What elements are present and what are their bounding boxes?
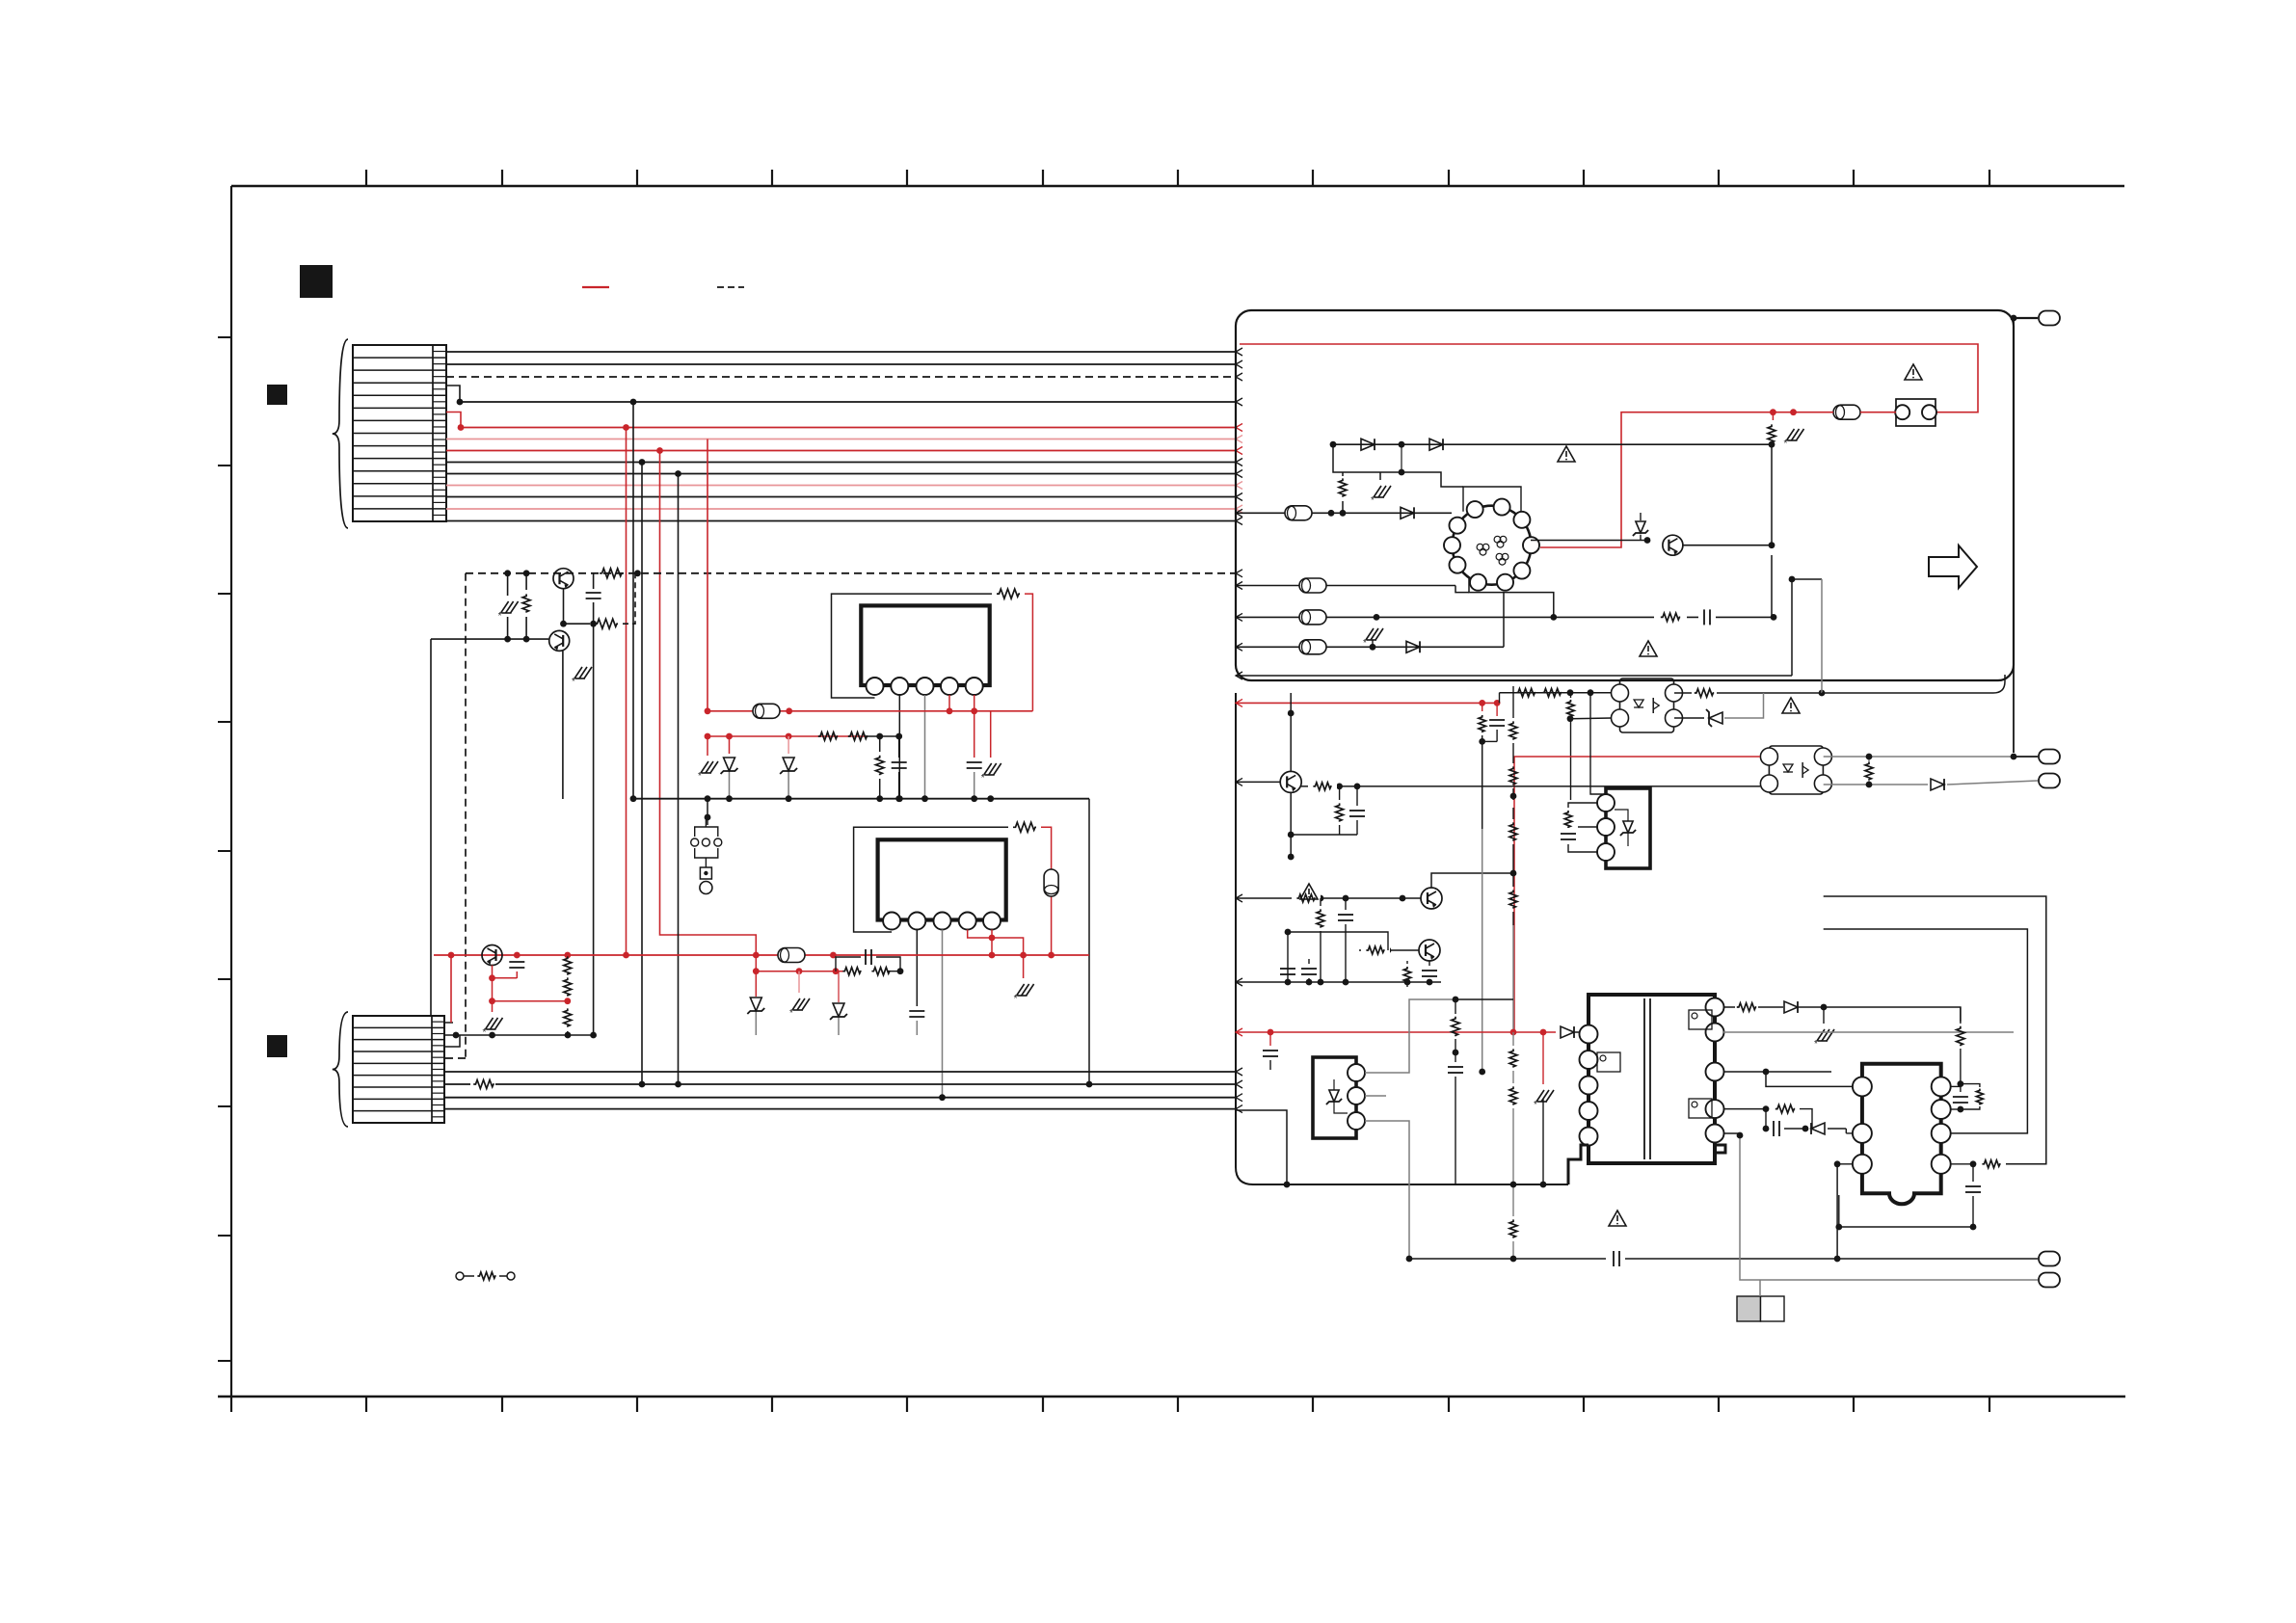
IC U1 [861,605,989,685]
wire rail 640 [1236,616,1774,618]
resistor R56 [1512,743,1514,763]
wire red rail B [434,954,1089,956]
wire red subrail A [707,735,868,737]
resistor R46 [1868,757,1870,761]
capacitor C42 [1356,786,1358,806]
fuse F1 [1896,399,1936,426]
resistor R26 [871,968,890,975]
wire bus2 row 1 [444,1071,1236,1073]
zener D21 [750,998,761,1011]
zener D22 [838,971,840,1002]
wire bus row 10 [446,485,1236,487]
wire U2 pin5 red [991,930,993,956]
capacitor C63 [1765,1109,1767,1129]
resistor R21 [564,956,572,974]
wire red rail C [1236,702,1497,704]
terminal TP5 [2039,1273,2060,1288]
capacitor C55 [1561,833,1576,835]
resistor R43 [1542,688,1562,697]
resistor R51 [1292,891,1321,906]
wire gnd rail C [1236,981,1441,983]
direction arrow [1929,545,1977,588]
zener D11 [729,736,731,754]
capacitor C61 [1269,1032,1271,1046]
svg-text:*: * [789,1008,793,1019]
wire bus row 8 [446,462,1236,464]
wire U2 pin3 [942,930,944,1098]
bead FB4 [1833,405,1860,419]
capacitor C21 [516,955,518,956]
connector CN101 brace [333,339,348,528]
ground G4 [990,711,992,758]
transistor Q1 [553,569,574,589]
legend block [1737,1296,1761,1321]
connector CN101 body [353,345,446,521]
wire T1 secondary thick [1715,1145,1725,1153]
resistor R57 [1512,808,1514,819]
wire bus row 13 [446,520,1236,522]
wire bus2 row 3 [444,1097,1236,1099]
wire col 1570 gnd [1512,925,1514,1032]
wire Q3 sub [492,966,494,1001]
wire TP2 link [2013,318,2015,753]
wire pin link [1723,1132,1740,1134]
legend red wire sample [582,286,609,288]
wire motor bottom rail [1469,578,1554,617]
wire U3 pin6 loop [1824,929,2028,1133]
wire T1 sec pin4 [1723,1108,1766,1110]
resistor R24 [1013,822,1036,832]
wire U3 pin3 [1837,1163,1853,1165]
IC U3 [1862,1064,1941,1205]
wire PC1 up [1821,579,1823,693]
wire motor feed 1 [1236,512,1331,514]
varistor RV1 [1379,472,1381,480]
capacitor C12 [898,736,900,758]
resistor R64 [1512,1207,1514,1216]
wire Q1 collector [563,589,565,625]
resistor R25 [842,968,861,975]
wire bus row step red [446,412,461,428]
warning triangle W6 [1300,884,1318,899]
bead FB2 [1044,869,1058,896]
wire red drop C [755,955,757,997]
capacitor C31 [1698,609,1716,625]
wire rail 701 [1236,675,1792,677]
wire fuse left red [1860,412,1896,413]
wire red to CN2 [450,955,452,1023]
resistor R44 [1570,693,1572,698]
resistor R13 [564,623,591,625]
capacitor C13 [974,711,975,758]
diode D32 [1429,439,1443,450]
resistor R41 [1482,703,1483,711]
wire T1 sec pin1 [1723,1006,1735,1008]
wire bus row 7 [446,450,1236,452]
svg-text:*: * [498,611,502,622]
wire Q4 rail [1301,785,1760,787]
svg-text:*: * [698,771,702,782]
capacitor C41 [1496,703,1498,716]
bead FB6 [1299,610,1326,625]
resistor R65 [1775,1104,1795,1113]
resistor R22 [564,977,572,996]
wire bottom join [1512,1118,1514,1207]
capacitor C54 [1428,961,1430,966]
wire sec to R [1824,1007,1961,1022]
wire IC1 outline loop [832,594,993,698]
resistor R17 [879,736,881,752]
connector J1 service jack [695,827,718,837]
svg-text:*: * [1814,1039,1818,1050]
wire bus2 row 4 [444,1108,1236,1110]
wire U3 pin5 [1951,1163,1973,1165]
wire legend stub [1759,1280,1761,1296]
resistor R63 [1512,1078,1514,1083]
regulator U4 [1313,1057,1356,1138]
warning triangle W4 [1782,698,1800,713]
resistor R11 [525,573,527,590]
wire T1 thick return [1568,1145,1589,1184]
transistor Q3 [482,945,502,966]
svg-text:*: * [483,1027,487,1038]
wire bus row 12 [446,508,1236,510]
ground G1b [507,617,509,639]
bead FB1 [753,704,780,718]
wire bus row 11 [446,496,1236,498]
wire U2 pin2 [916,930,918,1003]
junction dashed rail [504,570,511,576]
wire U3 riser [1838,1195,1840,1227]
wire Q4 top [1290,693,1292,771]
wire bus row 1 [446,351,1236,353]
wire bus row step black [446,386,460,402]
wire V7 [1088,799,1090,1084]
IC U2 [878,839,1006,919]
capacitor C22 [916,1002,918,1006]
wire Q6 links [1288,932,1388,982]
resistor R99 spare [456,1272,464,1280]
terminal TP1 [2014,317,2038,319]
wire Q4 gnd rail [1291,834,1357,836]
wire red subrail B [493,1000,568,1002]
diode D33 [1401,507,1414,519]
wire bus row 6 [446,439,1236,440]
wire Q4 base stub [1236,781,1280,783]
wire dashed drop [465,573,467,1058]
frame top border with ticks [231,185,2124,188]
wire red top rail [1240,344,1978,412]
frame bottom border with ticks [218,1396,2125,1398]
wire V6 [593,624,595,1035]
resistor R58 [1512,873,1514,887]
wire U5 top [1590,693,1606,794]
wire Q6 base [1359,949,1419,951]
wire left drop [430,639,432,1016]
section marker square 3 [267,1035,287,1057]
transformer T1 [1589,995,1715,1163]
ground G7 [1023,955,1025,978]
warning triangle W2 [1558,446,1575,462]
connector CN201 body [353,1016,444,1123]
board outline box A [1236,310,2014,680]
svg-text:*: * [1371,495,1375,506]
optocoupler PC1 [1620,678,1674,732]
resistor R14 [997,589,1020,599]
wire bus row 4 [460,401,1236,403]
wire vertical V2 red [626,428,627,956]
wire base rail [431,638,548,640]
resistor R66 [1957,1026,1965,1046]
frame left border with ticks [230,186,232,1397]
terminal TP2 [2014,756,2038,758]
resistor R31 [1772,412,1774,420]
capacitor C53 [1280,968,1295,970]
connector CN201 brace [333,1012,348,1127]
ground G5 [492,1001,494,1012]
svg-text:*: * [572,677,575,687]
resistor R15 [818,732,838,741]
resistor R12 [600,569,623,578]
wire U1 pin4 red [948,695,950,711]
diode D35 [1406,641,1420,652]
wire motor top link [1463,487,1521,512]
regulator U5 [1606,788,1650,868]
wire vertical V5 [678,474,680,1085]
wire black rail 461 [1333,443,1772,445]
resistor R61 [1455,999,1456,1014]
wire jack stem [707,799,708,825]
wire sec mid [1766,1072,1862,1086]
resistor R45 [1674,692,1692,694]
bead FB7 [1299,640,1326,654]
wire IC2 red feed [1041,827,1052,955]
wire bus row 2 [446,363,1236,365]
wire opto1 in [1499,693,1501,704]
optocoupler PC2 [1769,746,1823,794]
wire feedback W719 [1822,692,1993,694]
capacitor C66 [1606,1251,1625,1267]
motor M1 [1453,506,1532,585]
ground G6 [798,971,800,993]
wire IC1 red feed [1025,594,1032,711]
svg-text:*: * [981,773,985,784]
wire red riser A [707,439,708,711]
wire red to motor [1540,412,1773,547]
bead FB5 [1285,506,1312,520]
capacitor C52 [1308,959,1310,964]
zener D12 [788,736,789,754]
wire rail 490 [1333,444,1463,487]
resistor R42 [1516,688,1535,697]
terminal TP4 [2039,1252,2060,1266]
wire Q2 collector [562,651,564,799]
capacitor C62 [1455,1052,1456,1062]
wire U5 links [1568,803,1597,808]
wire red link PC2 [1514,757,1760,1032]
resistor R52 [1320,898,1322,906]
capacitor C64 [1960,1084,1962,1092]
resistor R32 [1342,472,1344,476]
capacitor C65 [1972,1164,1974,1182]
wire bus2 row 2 [444,1083,1236,1085]
wire Q7 out [1683,545,1772,546]
board outline box B [1236,693,1568,1184]
wire vertical V3 red [660,451,757,956]
svg-text:*: * [1784,439,1788,449]
varistor RV2 [1372,640,1374,647]
diode D61 [1561,1026,1574,1038]
wire col 1510 [1455,998,1513,1000]
resistor R55 [1512,686,1514,718]
diode D31 [1361,439,1375,450]
junction bus [630,399,637,406]
wire U4 links [1365,999,1455,1073]
wire bus row 9 [446,473,1236,475]
legend dashed wire sample [717,286,744,288]
wire bottom out 1 [1409,1258,2038,1260]
warning triangle W5 [1609,1211,1626,1226]
wire motor right [1531,540,1647,542]
transistor Q7 [1663,535,1683,555]
bead FB8 [1299,578,1326,593]
resistor R53 [1361,943,1390,958]
section marker square 2 [267,385,287,405]
wire riser 1537 [1482,829,1483,1072]
wire rail 607 [1236,585,1455,587]
wire R41 join [1482,740,1497,742]
wire CN2 gnd rail [444,1034,594,1036]
wire Q5 up [1431,873,1513,888]
svg-text:*: * [1363,638,1367,649]
capacitor C51 [1345,898,1347,910]
wire U1 pin5 red [974,695,975,711]
capacitor C11 [593,573,595,589]
ground G1 [507,573,509,596]
wire rail 671 [1236,646,1504,648]
wire vertical V4 [641,463,643,1085]
svg-text:*: * [1014,994,1018,1004]
wire CN2 step [444,1035,460,1047]
transistor Q5 [1421,888,1442,909]
ground G10 [1542,1032,1544,1084]
wire U3 pin2 [1846,1132,1853,1134]
wire bus row 3 [446,376,1236,378]
resistor R54 [1406,961,1408,964]
ground G9 [1787,429,1795,440]
zener D41 [1674,717,1704,719]
wire motor feed 1b [1331,512,1452,514]
resistor R62 [1512,1032,1514,1046]
wire U3 pin8 [1951,1085,1961,1087]
section marker square 1 [300,265,333,298]
wire bus row 5 [461,427,1236,429]
warning triangle W3 [1640,641,1657,656]
wire IC2 outline loop [854,827,1008,932]
wire ground rail A [633,798,1089,800]
wire T1 sec pin3 [1723,1071,1831,1073]
transistor Q4 [1280,771,1301,792]
wire red rail A [707,710,1032,712]
wire PC2 out top [1824,756,2014,758]
terminal TP3 [1824,784,1928,785]
wire red rail D [1236,1031,1556,1033]
wire Q5 base [1236,897,1421,899]
wire dashed rail [466,572,1236,574]
wire CN2 row a [444,1022,453,1024]
ground G11 [1823,1007,1825,1024]
resistor R48 [1339,786,1341,800]
resistor R23 [564,1008,572,1026]
resistor R68 [1982,1160,2000,1168]
wire U2 pin4 red [968,930,1024,956]
resistor R67 [1961,1084,1980,1087]
wire U1 pin2 [898,695,900,799]
wire col 1601 [1542,1099,1544,1184]
resistor R27 [470,1077,495,1092]
resistor R47 [1308,779,1337,794]
wire bottom out 2 [1740,1135,2038,1280]
transistor Q2 [549,630,570,651]
bead FB3 [778,948,805,963]
resistor R16 [848,732,868,741]
resistor R59 [1564,811,1572,828]
wire T1 sec pin2 [1723,1031,2014,1033]
svg-text:*: * [1534,1100,1537,1110]
wire Q7 base drop [1771,555,1773,617]
wire U3 gnd rail [1839,1226,1973,1228]
warning triangle W1 [1905,364,1922,380]
ground G3 [707,736,708,756]
ground G2 [574,667,582,678]
transistor Q6 [1419,940,1440,961]
wire subloop [836,957,861,971]
zener D34 [1636,521,1645,533]
wire U3 pin7 [1951,1108,1961,1110]
wire U1 pin3 [924,695,926,799]
resistor R33 [1654,609,1687,625]
wire vertical V1 [632,402,634,799]
